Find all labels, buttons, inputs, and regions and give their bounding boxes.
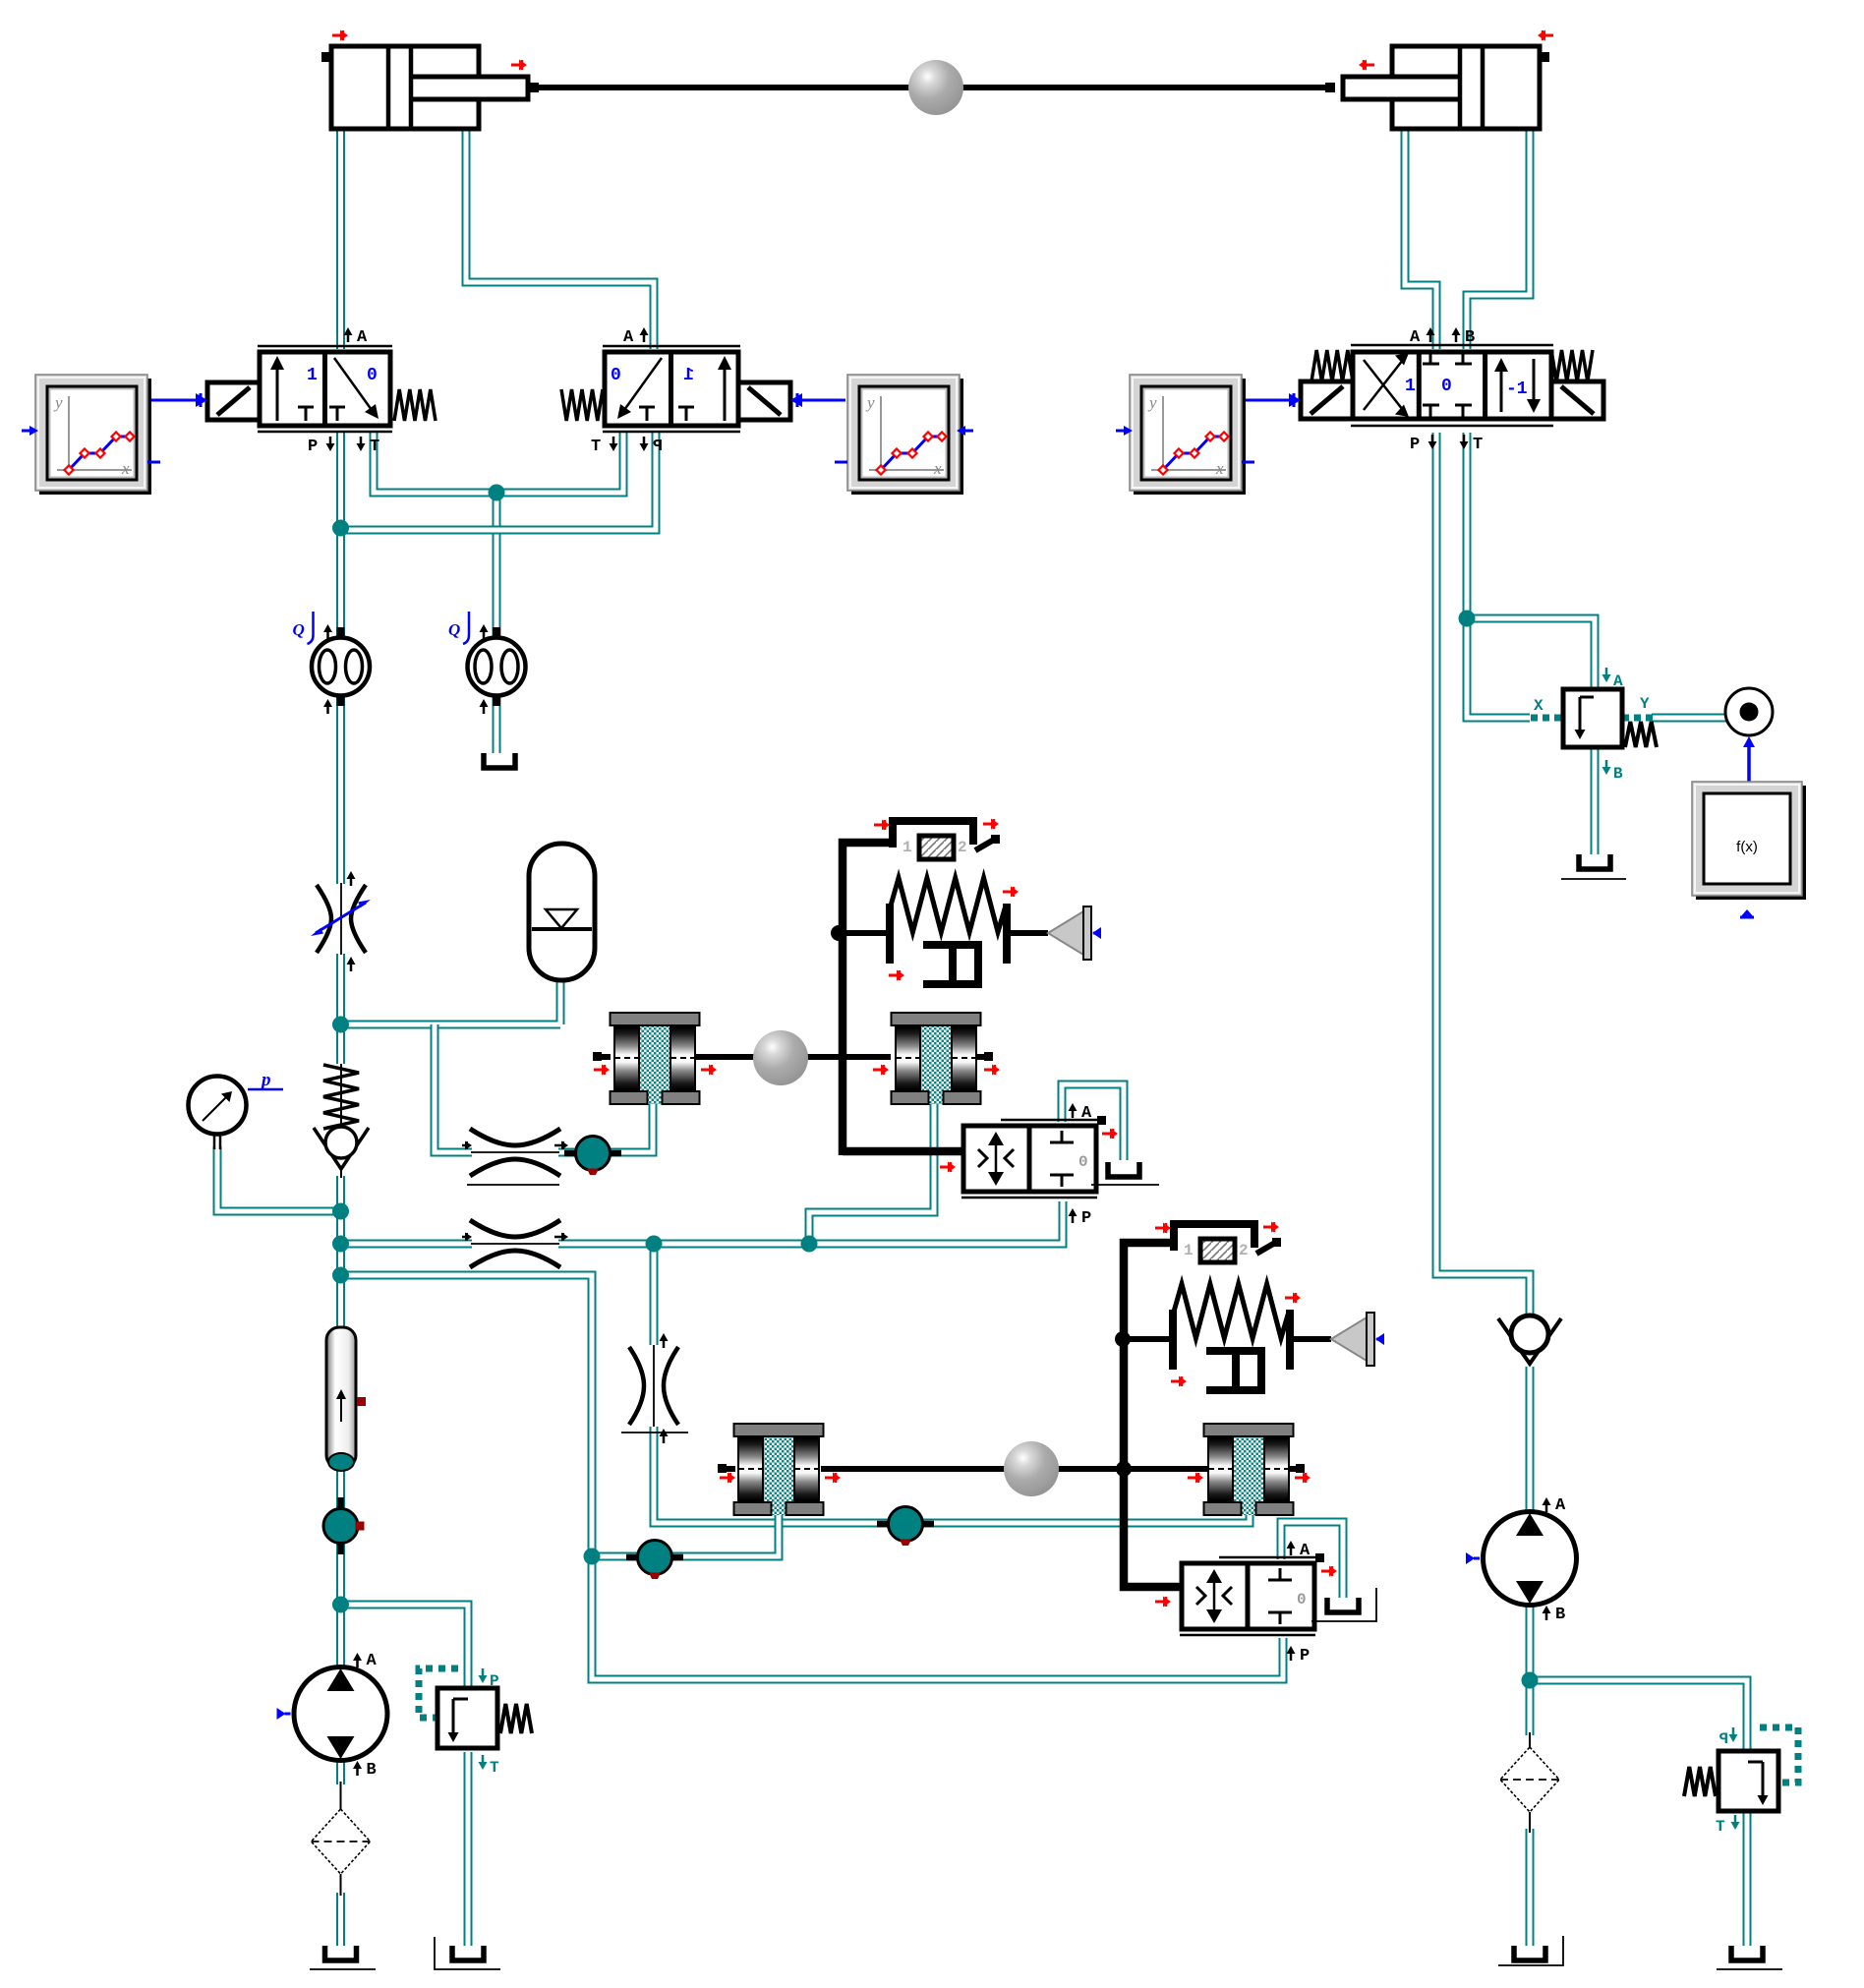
valve V3 cell 1 crossed arrows and label 1 [1364, 360, 1403, 410]
valve V2 solenoid [738, 382, 790, 420]
svg-text:Q: Q [448, 620, 460, 639]
wire branch down to orifice B1 [435, 1024, 472, 1152]
orifice B1 [462, 1129, 568, 1176]
cylinder Z2 (right, mirrored) [1343, 46, 1549, 129]
wire flow sensor Q1 to variable throttle D1 [336, 695, 345, 884]
friction element R3 [734, 1424, 824, 1515]
red arrow servo SV2 left [1155, 1597, 1171, 1608]
svg-text:1: 1 [903, 839, 912, 856]
mechanical link spring-damper SD2 to force cone [1290, 1336, 1331, 1342]
wire junction up to piston of friction R2 [809, 1103, 934, 1244]
svg-text:y: y [53, 393, 63, 412]
junction node orifice B2 outlet [646, 1236, 663, 1253]
accumulator SP1 [529, 844, 595, 980]
wire filter F2 to tank T5 [1526, 1829, 1535, 1946]
red arrow servo SV1 left [940, 1162, 956, 1173]
check valve R1 spring [323, 1065, 359, 1129]
svg-text:2: 2 [1239, 1242, 1249, 1259]
wire cylinder2 port A line to valve V3 port A [1405, 126, 1436, 349]
svg-text:T: T [591, 438, 601, 456]
check valve R1 [340, 1064, 342, 1178]
svg-text:0: 0 [1297, 1591, 1307, 1608]
mass M1 ball on rod [908, 60, 963, 115]
variable throttle D1 with signal input [317, 871, 366, 971]
svg-text:1: 1 [307, 366, 318, 385]
red state arrow cylinder Z2 body [1538, 30, 1553, 41]
wire throttle D2 to ball node to piston of friction R4 [654, 1427, 1250, 1523]
pilot dashed line of relief valve RV2 [1760, 1727, 1798, 1783]
wire junction to relief valve RV2 port P [1530, 1680, 1747, 1751]
svg-text:Y: Y [1640, 695, 1650, 713]
valve V1 3/2 directional valve body [258, 346, 392, 432]
wire cylinder1 rod-side port to valve V2 port A [466, 126, 654, 349]
svg-text:2: 2 [958, 839, 967, 856]
red arrow end stop A1 right [983, 819, 999, 830]
tank T7 at servo valve SV2 [1327, 1598, 1359, 1612]
svg-text:B: B [367, 1761, 377, 1780]
relief valve RV1 label T [479, 1755, 488, 1770]
red state arrow cylinder Z1 body [332, 30, 348, 41]
volume node ball B1 [564, 1137, 621, 1176]
mechanical beam of mass-spring system 2 [1124, 1243, 1174, 1469]
junction node servo SV1 supply [801, 1236, 818, 1253]
spring-damper SD2 [1173, 1284, 1290, 1390]
valve V2 3/2 directional valve body (mirrored) [603, 346, 740, 432]
servo actuator valve SV2 [1180, 1553, 1324, 1635]
volume node ball B2 [626, 1541, 683, 1580]
wire check valve CV2 to pump P2 port A [1526, 1367, 1535, 1514]
flow sensor Q2 [448, 612, 526, 714]
pressure gauge PM1 [189, 1077, 247, 1150]
wire filter F1 to tank T1 [336, 1893, 345, 1946]
svg-text:B: B [1555, 1606, 1565, 1624]
junction node orifice B2 line [332, 1236, 349, 1253]
svg-text:f(x): f(x) [1736, 839, 1758, 855]
svg-text:x: x [1215, 459, 1224, 478]
red arrow friction R4 left [1188, 1473, 1203, 1484]
red state arrow cylinder Z2 rod [1359, 60, 1374, 71]
wire junction to orifice B2 [341, 1240, 473, 1249]
svg-text:A: A [357, 328, 368, 347]
red arrow end stop A2 left [1155, 1223, 1171, 1234]
svg-text:0: 0 [367, 366, 378, 385]
svg-text:x: x [121, 459, 130, 478]
red arrow friction R2 right [984, 1065, 1000, 1076]
svg-text:1: 1 [683, 366, 694, 385]
valve V3 port label T [1460, 435, 1469, 449]
svg-text:P: P [1300, 1647, 1310, 1666]
svg-text:0: 0 [611, 366, 621, 385]
friction element R1 [611, 1013, 700, 1104]
svg-text:P: P [1718, 1730, 1728, 1748]
mechanical rod into servo valve SV2 [1124, 1469, 1182, 1587]
svg-text:0: 0 [1078, 1153, 1088, 1171]
wire orifice B1 to ball node to piston of friction R1 [558, 1102, 653, 1152]
red arrow end stop A2 right [1263, 1222, 1279, 1233]
valve V3 cell 3 arrows and label -1 [1500, 368, 1503, 412]
valve V3 right solenoid [1551, 381, 1603, 419]
svg-text:T: T [370, 438, 379, 456]
red arrow friction R4 right [1295, 1473, 1311, 1484]
servo actuator valve SV1 [961, 1116, 1106, 1198]
relief valve RV2 (mirrored) [1684, 1751, 1778, 1811]
valve V2 port label P mirrored [640, 437, 649, 451]
wire lower supply down and across to servo valve SV2 port P [341, 1275, 1284, 1679]
valve V3 port label B [1452, 327, 1461, 342]
svg-text:T: T [1473, 436, 1483, 454]
svg-text:p: p [260, 1070, 271, 1090]
junction node gauge line [332, 1203, 349, 1220]
tank T1 below filter F1 [325, 1946, 357, 1960]
wire valve V3 port P down to check valve CV2 and pump P2 [1436, 433, 1530, 1316]
wire pressure control valve port Y to rotation sensor [1652, 714, 1726, 723]
tank T4 at servo valve SV1 [1108, 1162, 1139, 1177]
mass M3 ball [1004, 1441, 1059, 1496]
wire pipe element to ball valve B3 to pump P1 [336, 1466, 345, 1683]
signal line from function generator S2 to valve V2 [801, 399, 845, 402]
tank T6 below relief valve RV2 [1731, 1946, 1763, 1960]
wire pump P2 port B to junction [1526, 1603, 1535, 1735]
wire servo valve SV1 port A to tank T4 [1062, 1084, 1124, 1160]
mechanical link spring-damper SD1 to force cone [1007, 930, 1048, 936]
signal line from function generator S3 to valve V3 [1244, 399, 1290, 402]
svg-text:-1: -1 [1506, 380, 1528, 399]
relief valve RV2 label q (mirrored P) [1729, 1727, 1738, 1742]
wire valve V1 port T to valve V2 port T [374, 433, 623, 493]
signal stub below f(x) [1740, 909, 1754, 917]
red state arrow cylinder Z1 rod [511, 60, 527, 71]
pilot dashed line X port of pressure control valve [1531, 715, 1563, 722]
red arrow servo SV2 top [1321, 1566, 1337, 1577]
pressure control valve label A [1602, 668, 1611, 682]
wire valve V3 port T down to junction and pressure valve [1467, 433, 1530, 718]
valve V3 left spring [1311, 350, 1353, 381]
friction element R4 [1204, 1424, 1294, 1515]
mass M2 ball [753, 1030, 808, 1085]
wire junction to pressure control valve port A [1467, 618, 1595, 691]
svg-text:T: T [490, 1759, 499, 1777]
wire junction to relief valve RV1 port P [341, 1605, 469, 1688]
wire throttle D1 to junction/check valve [336, 954, 345, 1064]
red arrow friction R2 left [873, 1065, 889, 1076]
junction node above pump P1 [332, 1597, 349, 1613]
red arrow end stop A1 left [874, 820, 890, 831]
valve V1 solenoid [207, 382, 260, 420]
svg-text:T: T [1716, 1818, 1725, 1836]
valve V2 right cell arrow and mirrored label 1 [724, 366, 727, 421]
filter F2 [1500, 1747, 1559, 1812]
svg-text:0: 0 [1441, 377, 1452, 396]
svg-text:A: A [623, 328, 634, 347]
pilot dashed line Y port of pressure control valve [1622, 715, 1654, 722]
rotation sensor [1725, 688, 1773, 735]
svg-text:P: P [1410, 436, 1420, 454]
junction node lower vertical line [584, 1549, 601, 1565]
junction node on T-line between V1 and V2 [489, 485, 505, 501]
underline of orifice B1 [467, 1184, 559, 1186]
valve V3 left solenoid [1301, 381, 1353, 419]
wire valve V1 port P down to flow sensor Q1 [336, 433, 345, 639]
servo valve SV1 label P [1069, 1208, 1078, 1223]
relief valve RV1 [437, 1688, 532, 1748]
function block f(x) [1692, 782, 1806, 900]
red arrow friction R3 left [720, 1473, 735, 1484]
function generator S3 (x-y curve source) [1116, 375, 1254, 495]
wire cylinder1 port A to valve V1 port A [336, 126, 345, 349]
wire relief valve RV1 port T to tank T3 [464, 1752, 473, 1946]
junction node T-line of V3 [1459, 611, 1476, 627]
junction node lower supply line [332, 1267, 349, 1284]
wire check valve R1 outlet down through junctions to pipe element [336, 1176, 345, 1329]
flow sensor Q1 [293, 612, 371, 714]
pipe element (line volume) L1 [326, 1327, 366, 1471]
valve V2 return spring [561, 389, 603, 421]
red arrow friction R1 left [594, 1065, 610, 1076]
filter F1 [312, 1809, 371, 1874]
pump P2 [1466, 1496, 1577, 1624]
red arrow servo SV1 top [1102, 1129, 1118, 1140]
force cone F2 [1331, 1313, 1384, 1366]
svg-text:A: A [1300, 1542, 1311, 1560]
spring-damper SD1 [890, 878, 1007, 984]
valve V1 port label T [357, 437, 366, 451]
function generator S1 (x-y curve source) [22, 375, 160, 495]
valve V1 right cell arrow and label 0 [334, 358, 372, 410]
end stop element A1 [893, 821, 1000, 859]
signal line from function generator S1 to valve V1 [149, 399, 197, 402]
svg-text:y: y [865, 393, 875, 412]
svg-text:y: y [1147, 393, 1157, 412]
red arrow SD1 spring [1003, 887, 1019, 898]
mechanical link beam to spring-damper SD1 [839, 930, 890, 936]
mechanical rod friction R3 - mass M3 - beam - friction R4 [725, 1466, 1299, 1472]
pressure control valve PV (X/Y pilot) [1563, 689, 1622, 747]
orifice B2 [462, 1220, 568, 1267]
red arrow SD2 damper [1171, 1376, 1187, 1387]
red arrow friction R3 right [825, 1473, 841, 1484]
tank T3 below relief valve RV1 [452, 1946, 484, 1960]
force cone F1 [1048, 906, 1101, 960]
cylinder Z1 (left, double acting) [321, 46, 528, 129]
wire flow sensor Q2 to tank T2 [493, 695, 501, 753]
wire node to ball valve to piston of friction R3 [592, 1512, 779, 1556]
end stop element A2 [1174, 1224, 1281, 1262]
svg-text:X: X [1534, 697, 1544, 715]
svg-text:B: B [1465, 328, 1475, 347]
wire orifice B2 to servo valve SV1 port P [558, 1201, 1063, 1244]
throttle D2 (fixed, with underline) [629, 1333, 678, 1443]
svg-text:A: A [1081, 1104, 1092, 1123]
valve V3 4/3 directional valve body [1351, 345, 1553, 426]
volume node ball B3 (vertical) [323, 1497, 365, 1554]
valve V1 left cell arrow and label 1 [276, 366, 279, 421]
svg-text:Q: Q [293, 620, 305, 639]
pressure control valve label B [1602, 760, 1611, 775]
function generator S2 (x-y curve source, mirrored) [835, 375, 973, 495]
svg-text:P: P [1081, 1209, 1091, 1228]
red arrow friction R1 right [701, 1065, 717, 1076]
valve V1 return spring [394, 389, 436, 421]
tank T8 at pressure control valve [1579, 854, 1610, 869]
junction node pump P2 outlet [1522, 1672, 1539, 1689]
wire pressure control valve port B to tank T8 [1591, 747, 1600, 854]
signal line sensor to f(x) block [1747, 747, 1751, 782]
wire servo valve SV2 port A to tank T7 [1281, 1522, 1343, 1598]
junction node accumulator branch [332, 1017, 349, 1033]
svg-text:B: B [1613, 765, 1623, 783]
red arrow SD1 damper [889, 970, 904, 981]
wire P-line junction to valve V2 port P [341, 433, 657, 530]
svg-text:P: P [653, 438, 663, 456]
svg-text:A: A [367, 1652, 378, 1670]
tank T2 below flow sensor Q2 [484, 753, 515, 768]
red arrow SD2 spring [1285, 1293, 1301, 1304]
servo valve SV2 label P [1287, 1646, 1296, 1661]
pump P1 [277, 1652, 388, 1780]
check valve CV2 [1498, 1318, 1561, 1364]
tank T5 below filter F2 [1514, 1946, 1545, 1960]
pressure control valve spring [1625, 722, 1657, 747]
mechanical rod friction R1 - mass M2 - beam - friction R2 [600, 1054, 987, 1060]
svg-text:P: P [308, 438, 318, 456]
relief valve RV1 label P [479, 1668, 488, 1683]
servo valve SV2 label A [1287, 1541, 1296, 1555]
svg-text:1: 1 [1184, 1242, 1194, 1259]
wire accumulator branch line [341, 978, 561, 1024]
mechanical rod cylinder1 to mass M1 to cylinder2 [538, 85, 1334, 90]
valve V1 port label A [344, 327, 353, 342]
wire relief valve RV2 port T to tank T6 [1743, 1811, 1752, 1946]
svg-text:A: A [1555, 1496, 1566, 1515]
junction node on P-line below V1 [332, 520, 349, 537]
mechanical beam of mass-spring system 1 [843, 843, 963, 1155]
svg-text:1: 1 [1405, 377, 1416, 396]
wire cylinder2 port B line to valve V3 port B [1467, 126, 1530, 349]
svg-text:A: A [1613, 672, 1623, 690]
pilot dashed line of relief valve RV1 [419, 1668, 458, 1718]
friction element R2 [892, 1013, 981, 1104]
wire junction down to throttle D2 [650, 1244, 659, 1345]
wire pump P1 port B to filter F1 [336, 1760, 345, 1784]
svg-text:P: P [490, 1672, 499, 1690]
servo valve SV1 label A [1069, 1103, 1078, 1118]
svg-text:x: x [933, 459, 942, 478]
wire node at T-line down to flow sensor Q2 [493, 493, 501, 639]
volume node ball B4 [877, 1507, 934, 1547]
valve V2 left cell arrow and label 0 [624, 358, 662, 410]
svg-text:A: A [1410, 328, 1421, 347]
wire pressure gauge connection [217, 1146, 341, 1211]
mechanical link beam to spring-damper SD2 [1123, 1336, 1173, 1342]
valve V3 right spring [1551, 350, 1593, 381]
